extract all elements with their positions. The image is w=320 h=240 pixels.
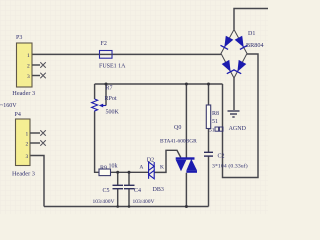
triac Q0 (176, 157, 197, 172)
ground AGND (228, 111, 240, 117)
junction R9 rail C4 (128, 171, 131, 174)
bridge diode bottom-right (234, 60, 247, 74)
potentiometer R7 zigzag (92, 99, 98, 112)
wire bottom rail (44, 206, 209, 208)
svg-text:R7: R7 (106, 86, 113, 92)
no-connect X P4 pin1 (40, 130, 46, 136)
wire pot top (94, 84, 96, 99)
junction rail-R8 (207, 83, 210, 86)
svg-text:DB3: DB3 (153, 187, 164, 193)
wire bridge right to right drop, bottom loop, up to rail (223, 54, 259, 178)
junction bottom C4 (128, 205, 131, 208)
svg-text:BTA41-600BGR: BTA41-600BGR (160, 139, 197, 145)
wire R8 to C2 (208, 129, 210, 153)
no-connect X P4 pin2 (40, 140, 46, 146)
bridge diode top-right (235, 36, 248, 50)
connector P3 (17, 43, 41, 87)
svg-text:D1: D1 (248, 31, 255, 37)
svg-text:P4: P4 (15, 112, 21, 118)
capacitor C4 (124, 185, 135, 188)
junction R9 rail C5 (116, 171, 119, 174)
wire bridge bottom to ground (233, 78, 235, 110)
svg-text:RPot: RPot (105, 96, 117, 102)
junction bottom triac (185, 205, 188, 208)
wire bridge top riser and top rail (234, 9, 268, 30)
svg-text:Q0: Q0 (174, 125, 181, 131)
svg-text:Header 3: Header 3 (12, 171, 35, 178)
svg-text:51: 51 (209, 127, 215, 133)
fuse F2 (100, 51, 113, 59)
junction bottom C5 (116, 205, 119, 208)
svg-text:2: 2 (27, 64, 30, 70)
wire C5 bottom (117, 189, 119, 207)
svg-text:D2: D2 (147, 158, 154, 164)
wire P3 pin1 to fuse (32, 53, 100, 55)
wire R8 top riser (208, 84, 210, 105)
resistor R9 (99, 169, 111, 176)
junction rail-wiper (105, 83, 108, 86)
wire C5 top riser (117, 172, 119, 185)
junction rail-triac (185, 83, 188, 86)
potentiometer R7 wiper arrow (99, 104, 106, 108)
svg-text:K: K (160, 164, 164, 170)
bridge rectifier D1 diamond (221, 30, 247, 79)
svg-text:Header 3: Header 3 (12, 90, 35, 97)
svg-text:10k: 10k (109, 164, 118, 170)
wire diac K to triac gate (154, 150, 181, 172)
svg-text:51: 51 (212, 119, 218, 125)
svg-text:103/400V: 103/400V (133, 199, 155, 205)
svg-text:P3: P3 (16, 35, 22, 41)
wire P4 pin3 to bottom rail (30, 156, 44, 207)
capacitor C5 (113, 185, 124, 188)
svg-text:F2: F2 (101, 41, 107, 47)
svg-text:R9: R9 (100, 165, 107, 171)
no-connect X P3 pin2 (40, 62, 46, 68)
diac D2 (149, 162, 155, 179)
svg-text:500K: 500K (106, 110, 120, 116)
wire R9 to diac (111, 171, 149, 173)
bridge diode top-left (221, 36, 234, 50)
wire main rail y84 (95, 83, 223, 85)
wire triac MT2 riser (185, 84, 187, 158)
svg-text:3: 3 (26, 154, 29, 160)
svg-text:R8: R8 (212, 111, 219, 117)
wire pot wiper riser (105, 84, 107, 106)
svg-text:C4: C4 (134, 188, 141, 194)
svg-text:~160V: ~160V (0, 103, 17, 109)
wire pot bottom to R9 (95, 112, 99, 173)
resistor R8 (206, 105, 210, 129)
svg-text:A: A (139, 164, 143, 170)
wire triac MT1 drop (185, 173, 187, 207)
connector P4 (16, 119, 41, 166)
svg-text:2: 2 (26, 142, 29, 148)
wire C4 top riser (128, 172, 130, 185)
svg-text:BR804: BR804 (246, 42, 264, 49)
svg-text:3*104 (0.33uf): 3*104 (0.33uf) (212, 163, 248, 170)
no-connect X P3 pin3 (40, 73, 46, 79)
svg-text:1: 1 (27, 53, 30, 59)
svg-text:C5: C5 (103, 188, 110, 194)
wire C2 bottom (208, 156, 210, 206)
svg-text:1: 1 (26, 132, 29, 138)
bridge diode bottom-left (222, 60, 235, 74)
svg-text:FUSE1 1A: FUSE1 1A (99, 64, 126, 70)
capacitor C2 (204, 152, 213, 156)
svg-text:103/400V: 103/400V (93, 199, 115, 205)
wire C4 bottom (128, 189, 130, 207)
svg-text:3: 3 (27, 74, 30, 80)
wire fuse to bridge left (112, 53, 221, 55)
svg-text:C2: C2 (218, 154, 225, 160)
svg-text:AGND: AGND (229, 126, 247, 132)
